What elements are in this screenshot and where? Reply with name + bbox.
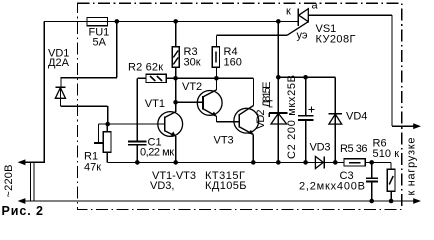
wire: upper mains input with arrow [18, 159, 45, 165]
label FU1 5A [89, 27, 110, 49]
svg-text:С2 200 мкх25В: С2 200 мкх25В [286, 75, 298, 159]
svg-text:160: 160 [224, 57, 242, 69]
label R2 62k [128, 62, 163, 74]
bottom annotation VD3, КД105Б [150, 180, 247, 192]
wire: left input vertical [43, 21, 45, 162]
resistor R4 [212, 35, 219, 78]
diode VD4 [329, 77, 342, 162]
wire: gate wire R4 to VS1 [216, 22, 308, 36]
svg-text:к: к [286, 6, 291, 18]
transistor VT1 [158, 102, 183, 162]
bottom annotation VT1-VT3 КТ315Г [152, 170, 245, 182]
label VT3 [214, 135, 234, 147]
pin label к [286, 6, 291, 18]
label VS1 КУ208Г [316, 23, 356, 46]
svg-text:к нагрузке: к нагрузке [406, 138, 418, 196]
wire: R2 left to C1 [137, 78, 146, 141]
resistor R5 [344, 159, 365, 166]
resistor R2 [146, 74, 176, 82]
svg-text:Д815Е: Д815Е [261, 82, 273, 108]
svg-text:VD3,: VD3, [150, 180, 174, 192]
svg-text:30к: 30к [184, 57, 201, 69]
svg-text:VT3: VT3 [214, 135, 234, 147]
svg-text:VD3: VD3 [310, 142, 331, 154]
label C2 200mk x 25V (rotated) [286, 75, 298, 159]
zener diode VD2 [269, 77, 287, 162]
wire: C2 branch from top rail [278, 21, 335, 77]
label R4 160 [224, 46, 242, 69]
svg-text:уэ: уэ [297, 30, 308, 42]
wire: VT2 base wire [176, 101, 203, 103]
wire: driver rail R3/R4/VT3 collector [176, 78, 254, 105]
svg-text:VD2: VD2 [255, 110, 267, 130]
wire: top rail from input to VS1 cathode [44, 20, 298, 22]
node к нагрузке label (rotated) [406, 138, 418, 196]
caption Рис. 2 [2, 204, 44, 218]
transistor VT3 [234, 106, 259, 163]
svg-text:VT2: VT2 [182, 81, 202, 93]
thyristor VS1 [298, 9, 392, 127]
label C3 [340, 170, 354, 182]
wire: fuse branch down to VD1 [60, 21, 116, 98]
label VD3 [310, 142, 331, 154]
label VT1 [145, 98, 165, 110]
pin label а [312, 0, 319, 12]
label 2,2mk x 400V [299, 181, 365, 193]
capacitor C2 (electrolytic) [298, 77, 315, 162]
svg-text:47к: 47к [84, 162, 101, 174]
svg-text:КД105Б: КД105Б [205, 180, 247, 192]
pin label уэ [297, 30, 308, 42]
diode VD3 [315, 156, 324, 168]
svg-text:2,2мкх400В: 2,2мкх400В [299, 181, 365, 193]
svg-text:510 к: 510 к [373, 148, 400, 160]
capacitor C3 [366, 162, 378, 201]
resistor R1 [103, 124, 111, 162]
svg-text:Д2А: Д2А [48, 57, 70, 69]
chassis tap of R1 [94, 124, 108, 143]
svg-text:КУ208Г: КУ208Г [316, 34, 356, 46]
transistor VT2 [197, 78, 239, 122]
label R1 47k [84, 151, 101, 174]
wire: upper output with arrow [392, 123, 421, 129]
capacitor C1 [128, 142, 146, 163]
wire: lower output arrow [413, 198, 421, 204]
svg-text:5А: 5А [93, 37, 107, 49]
label R3 30k [184, 46, 201, 69]
enclosure dash-dot boundary [78, 3, 402, 209]
svg-text:0,22 мк: 0,22 мк [140, 147, 174, 159]
node ~220V label [3, 165, 15, 198]
svg-text:~220В: ~220В [3, 165, 15, 198]
svg-text:R2 62к: R2 62к [128, 62, 163, 74]
label VD2 Д815Е (rotated) [255, 82, 273, 130]
wire: lower mains input with arrow (bottom rail) [18, 198, 415, 204]
svg-text:VT1: VT1 [145, 98, 165, 110]
label VD4 [346, 111, 367, 123]
label R5 36 [340, 143, 368, 155]
label VT2 [182, 81, 202, 93]
label R6 510k [373, 137, 400, 160]
label C1 0,22mk [140, 137, 174, 159]
diode VD1 [55, 87, 65, 98]
wire: VT1 collector vertical [175, 78, 177, 102]
svg-text:VD4: VD4 [346, 111, 367, 123]
svg-text:R5 36: R5 36 [340, 143, 368, 155]
label VD1 Д2А [48, 48, 70, 70]
wire: base wire to VT1 [108, 123, 165, 125]
wire: internal mid rail [107, 162, 391, 169]
svg-text:Рис. 2: Рис. 2 [2, 204, 44, 218]
resistor R6 [387, 169, 395, 201]
resistor R3 [172, 21, 179, 78]
fuse FU1 [87, 18, 108, 26]
wire: double vertical link at mains input [30, 162, 34, 201]
svg-text:а: а [312, 0, 319, 12]
wire: VD1 anode to base node [60, 98, 107, 124]
